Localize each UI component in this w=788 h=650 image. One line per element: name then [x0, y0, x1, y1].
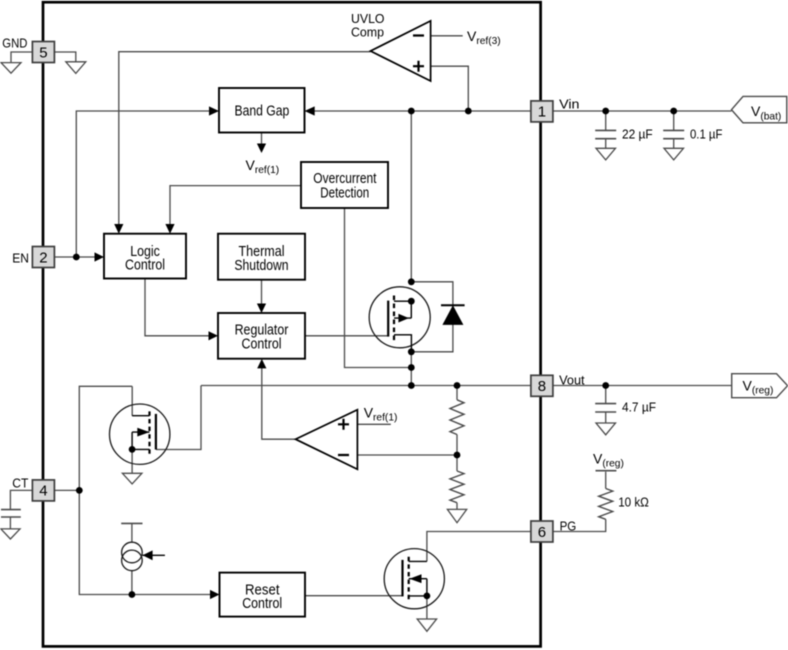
svg-text:4: 4: [39, 483, 47, 500]
wire EN junction up to Band Gap: [76, 111, 210, 257]
PIN BOXES: [32, 42, 553, 543]
svg-text:Vin: Vin: [559, 96, 579, 111]
block Thermal Shutdown: [218, 234, 305, 280]
node Vin at 0.1uF: [670, 108, 677, 115]
svg-text:Comp: Comp: [351, 24, 384, 39]
block Reset Control: [220, 573, 306, 617]
arrow into Reset Control left: [210, 590, 220, 599]
svg-text:22 µF: 22 µF: [622, 126, 653, 141]
wire error amp output to Regulator Control: [262, 368, 296, 439]
pin 1 Vin box: [531, 101, 553, 122]
wire current source bottom to CT line: [131, 571, 133, 595]
node pass FET drain bottom: [408, 348, 415, 355]
arrow into Band Gap right: [305, 106, 315, 115]
wire CT net upper rail to Q2 drain: [79, 386, 132, 490]
wire Vin external to Vbat flag: [553, 110, 732, 112]
svg-text:8: 8: [538, 378, 546, 395]
wire Q2 source to ground: [131, 449, 133, 473]
ground at GND pin left: [1, 63, 21, 74]
resistor R2 divider bottom: [450, 471, 464, 503]
arrow into Band Gap left: [209, 106, 219, 115]
transistor Q3 PG open-drain NMOS: [384, 549, 444, 609]
svg-text:Control: Control: [125, 257, 165, 273]
svg-text:6: 6: [538, 524, 546, 541]
wire Vin rail down to pass FET source: [410, 111, 412, 282]
chip outline: [43, 2, 541, 646]
pin 5 GND box: [32, 42, 54, 63]
capacitor C4 CT timing cap plates: [1, 510, 21, 517]
capacitor C1 22uF plates: [595, 130, 616, 138]
wire resistor divider top lead: [456, 386, 458, 400]
node Vin at 22uF: [602, 108, 609, 115]
arrow into Logic Control from UVLO: [114, 224, 123, 234]
CAPACITOR PLATES: [1, 130, 684, 523]
wire GND pin left ground: [11, 52, 32, 63]
wire Vout rail to Q2 gate: [156, 386, 201, 450]
node pass FET source stub: [408, 298, 415, 305]
node overcurrent sense tap: [408, 364, 415, 371]
svg-text:4.7 µF: 4.7 µF: [622, 400, 656, 415]
node Q2 source body: [129, 446, 136, 453]
node Q3 source body: [424, 593, 431, 600]
svg-text:CT: CT: [12, 476, 28, 491]
wire error amp plus input stub: [357, 423, 390, 425]
svg-text:Detection: Detection: [320, 186, 369, 202]
op-amp UVLO comparator: [371, 21, 431, 81]
resistor R1 divider top: [450, 400, 464, 435]
wire pass FET drain down to Vout rail: [410, 352, 412, 386]
node Vout rail at divider: [454, 382, 461, 389]
arrow Band Gap Vref down: [257, 144, 266, 154]
wire CT pin external cap: [10, 490, 32, 529]
wire error amp minus input to divider: [357, 454, 457, 456]
ground at GND pin right: [66, 62, 86, 74]
diode D1 body diode: [411, 282, 464, 352]
wire Band Gap Vref output stub: [261, 132, 263, 144]
ground at CT external cap: [1, 529, 20, 539]
wire Vout internal rail: [201, 385, 531, 387]
wire PG pin to pullup resistor: [553, 519, 606, 531]
wire resistor divider middle: [456, 435, 458, 472]
svg-text:Control: Control: [242, 596, 282, 612]
current source I1: [122, 542, 165, 571]
wire Reset Control output to Q3 gate: [305, 595, 403, 597]
supply bar above 10k resistor: [596, 470, 617, 472]
wire CT junction down to Reset Control: [79, 490, 210, 594]
svg-text:10 kΩ: 10 kΩ: [618, 494, 649, 509]
node current source output: [129, 591, 136, 598]
node pass FET source top: [408, 278, 415, 285]
wire current source top bar stem: [131, 523, 133, 542]
node Vin rail at UVLO tap: [465, 108, 472, 115]
block Overcurrent Detection: [301, 162, 388, 208]
svg-text:GND: GND: [2, 36, 27, 51]
arrow Thermal Shutdown into Regulator Control: [257, 304, 266, 314]
wire CT pin to junction: [54, 489, 79, 491]
wire Thermal Shutdown to Regulator Control: [261, 280, 263, 304]
wire 22uF cap drop: [605, 111, 607, 148]
ground at resistor divider: [447, 509, 466, 522]
arrow into Logic Control from Overcurrent: [165, 224, 174, 234]
block Regulator Control: [218, 313, 305, 359]
ARROWHEADS: [95, 106, 315, 599]
svg-text:PG: PG: [560, 518, 577, 533]
transistor Q2 CT discharge NMOS: [110, 404, 170, 464]
arrow into Regulator Control left: [209, 331, 219, 340]
wire Overcurrent Detection to Logic Control: [170, 186, 301, 225]
block Band Gap: [219, 88, 305, 133]
pin 2 EN box: [32, 247, 54, 268]
svg-text:Overcurrent: Overcurrent: [313, 171, 376, 187]
wire Q2 drain riser: [131, 386, 133, 415]
wire UVLO plus input to Vin rail: [431, 66, 469, 111]
svg-text:Control: Control: [242, 336, 282, 352]
wire pullup resistor top lead: [605, 472, 607, 489]
node EN junction: [73, 254, 80, 261]
svg-text:Shutdown: Shutdown: [234, 258, 288, 274]
arrow into Logic Control from EN: [95, 252, 105, 261]
wire resistor divider bottom lead: [456, 503, 458, 510]
wire Q3 drain riser to PG pin: [427, 532, 531, 562]
flag V(bat): [732, 96, 787, 122]
capacitor C2 0.1uF plates: [663, 130, 684, 138]
pin 4 CT box: [32, 480, 54, 501]
BLOCKS: [104, 88, 388, 617]
wire Q3 source to ground: [426, 596, 428, 619]
block Logic Control: [104, 234, 186, 279]
arrow into Regulator Control bottom: [257, 359, 266, 369]
svg-text:5: 5: [39, 44, 47, 61]
wire 0.1uF cap drop: [673, 111, 675, 148]
node Vout rail at drain: [408, 382, 415, 389]
svg-text:0.1 µF: 0.1 µF: [690, 126, 723, 141]
svg-text:2: 2: [39, 249, 47, 266]
capacitor C3 4.7uF plates: [595, 404, 616, 412]
ground at 22uF cap: [596, 148, 616, 160]
svg-text:1: 1: [538, 104, 546, 121]
ground at Q3 source: [417, 619, 436, 631]
wire Vout external to Vreg flag: [553, 385, 732, 387]
transistor Q1 pass PMOS: [369, 287, 430, 352]
svg-text:EN: EN: [12, 251, 29, 266]
svg-text:Vout: Vout: [559, 372, 585, 387]
ground at 4.7uF cap: [596, 423, 616, 435]
pin 6 PG box: [531, 521, 553, 542]
wire UVLO minus input stub: [431, 35, 463, 37]
pin 8 Vout box: [531, 375, 553, 396]
supply bar above current source: [121, 522, 142, 524]
flag V(reg): [732, 374, 788, 398]
wire 4.7uF cap drop: [605, 386, 607, 424]
wire GND pin right ground: [54, 52, 75, 62]
wire Logic Control to Regulator Control: [145, 279, 210, 336]
ground at 0.1uF cap: [664, 148, 684, 160]
node Vout at 4.7uF: [602, 382, 609, 389]
wire EN pin to junction and Logic Control: [54, 256, 95, 258]
node Vin rail at pass FET: [408, 108, 415, 115]
wire Overcurrent Detection sense: [345, 208, 412, 368]
node divider feedback: [454, 452, 461, 459]
svg-text:Band Gap: Band Gap: [235, 103, 290, 119]
wire Regulator Control to pass FET gate: [305, 335, 388, 337]
resistor R3 10k pullup: [599, 489, 613, 520]
op-amp error amplifier: [296, 410, 358, 470]
GROUND SYMBOLS: [1, 62, 684, 632]
node CT junction: [76, 487, 83, 494]
wire UVLO output to Logic Control: [119, 52, 371, 225]
wire Vin internal rail to Band Gap: [314, 110, 531, 112]
RESISTORS: [450, 400, 613, 520]
ground at Q2 source: [122, 473, 141, 484]
